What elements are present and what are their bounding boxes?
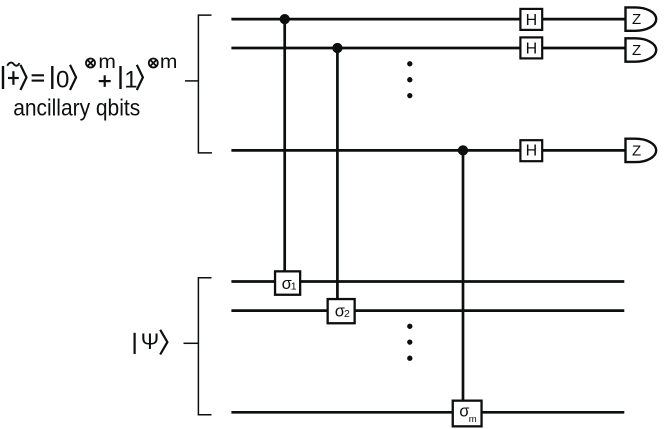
svg-text:Ψ: Ψ (141, 329, 159, 354)
svg-text:Z: Z (632, 143, 641, 160)
svg-text:m: m (160, 52, 178, 73)
label ket-psi bar (134, 333, 136, 354)
label plus sign in ket (8, 71, 19, 85)
label ket-one bar (119, 66, 121, 89)
control line 2 (336, 48, 339, 310)
label rangle 3 (137, 65, 143, 90)
svg-text:1: 1 (291, 281, 297, 293)
control dot 2 (332, 43, 342, 53)
label rangle psi (160, 330, 167, 355)
svg-text:Z: Z (632, 11, 641, 28)
label psi symbol (141, 329, 159, 354)
svg-text:H: H (526, 143, 538, 160)
bracket ancillary qubits (198, 15, 212, 153)
gate sigma2 box (328, 299, 355, 323)
label rangle 2 (70, 65, 76, 90)
label tilde over plus (7, 63, 19, 66)
label ket-zero bar (51, 66, 53, 89)
svg-text:ancillary qbits: ancillary qbits (13, 95, 140, 121)
gate H2 box (520, 37, 542, 58)
wire q4 (231, 280, 624, 283)
label equals sign (32, 75, 44, 80)
label plus between kets (99, 75, 111, 87)
label superscript m 1 (98, 52, 116, 73)
wire connector dash top (185, 80, 198, 82)
control dot 1 (280, 14, 290, 24)
svg-text:m: m (469, 414, 477, 425)
gate H1 box (520, 9, 542, 30)
svg-text:2: 2 (344, 308, 350, 320)
measurement Z2 (626, 38, 657, 61)
control dot 3 (458, 145, 468, 155)
gate sigma1 box (275, 271, 300, 294)
svg-text:m: m (98, 52, 116, 73)
label digit 1 (124, 66, 137, 93)
measurement Z3 (626, 139, 657, 162)
ellipsis dots ancilla wires (407, 61, 412, 98)
wire q1 (231, 18, 625, 21)
svg-text:H: H (526, 12, 538, 29)
label ket-plus formula bar 1 (2, 66, 4, 89)
label digit 0 (56, 66, 69, 93)
wire q3 (231, 149, 625, 152)
bracket psi qubits (198, 278, 211, 415)
svg-text:H: H (526, 40, 538, 57)
wire q5 (231, 309, 624, 312)
svg-text:Z: Z (632, 42, 641, 59)
wire connector dash bottom (184, 342, 199, 344)
svg-text:0: 0 (56, 66, 69, 93)
label rangle 1 (20, 65, 26, 90)
wire q6 (231, 411, 624, 414)
label tensor symbol 2 (149, 59, 158, 68)
svg-text:1: 1 (124, 66, 137, 93)
gate sigmam box (453, 401, 482, 427)
label tensor symbol 1 (86, 59, 95, 68)
wire q2 (231, 47, 625, 50)
control line 1 (283, 19, 286, 283)
measurement Z1 (626, 7, 657, 30)
ellipsis dots psi wires (407, 324, 412, 361)
gate H3 box (520, 140, 542, 161)
control line 3 (462, 150, 465, 413)
label ancillary qbits text (13, 95, 140, 121)
label superscript m 2 (160, 52, 178, 73)
